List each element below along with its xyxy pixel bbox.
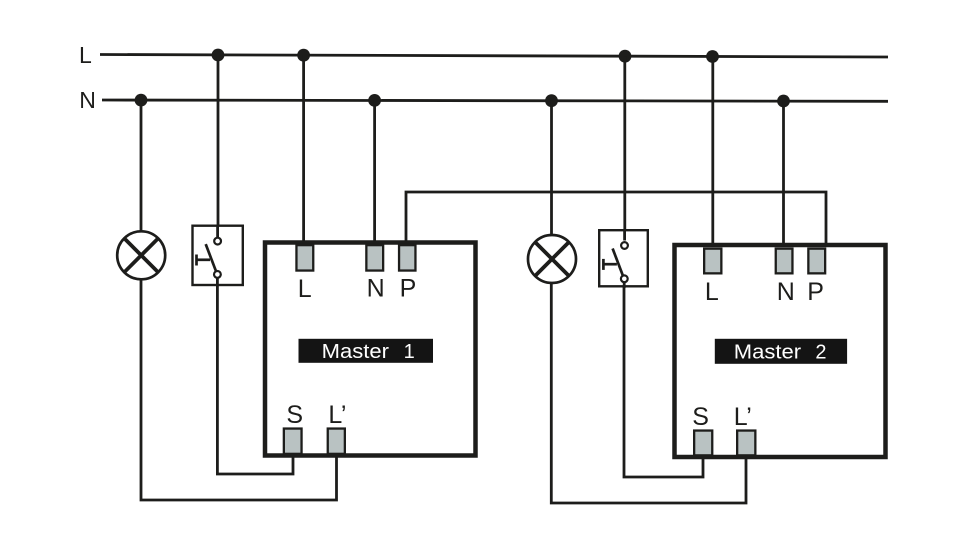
wire L bus — [100, 55, 888, 58]
junction on L bus at switch S1 feed — [212, 49, 225, 62]
junction on N bus at lamp E1 feed — [135, 94, 148, 107]
wire Master 2 L feed — [711, 57, 714, 250]
junction on L bus at switch S2 feed — [619, 50, 632, 63]
wire Master 1 N feed — [373, 100, 376, 246]
wire switch S1 feed from L — [217, 55, 220, 238]
wire lamp E2 to Master 2 L' — [551, 283, 746, 503]
wire Master 1 L feed — [302, 55, 305, 246]
terminal Master 2 L — [704, 249, 721, 274]
wire P interlink Master 1 P to Master 2 P — [406, 192, 826, 249]
module U1 Master 1 box — [265, 243, 476, 456]
wire N bus — [102, 100, 888, 101]
svg-text:S: S — [286, 401, 303, 429]
svg-text:N: N — [777, 278, 795, 306]
wire switch S2 to Master 2 S — [624, 281, 703, 477]
wire switch S2 feed from L — [623, 56, 626, 241]
lamp E1 — [117, 231, 165, 279]
junction on N bus at Master 2 N feed — [777, 95, 790, 108]
terminal Master 1 P — [399, 245, 415, 270]
svg-text:N: N — [367, 275, 385, 303]
label Master 1 — [299, 339, 434, 363]
svg-text:P: P — [807, 278, 824, 306]
svg-text:N: N — [79, 87, 96, 113]
terminal Master 1 N — [366, 245, 383, 270]
label Master 2 — [715, 339, 847, 364]
terminal Master 2 N — [776, 249, 793, 274]
wire switch S1 to Master 1 S — [217, 277, 293, 474]
wire Master 2 N feed — [782, 101, 785, 249]
svg-text:1: 1 — [404, 341, 415, 363]
wire lamp E1 feed from N — [140, 100, 143, 232]
terminal Master 1 S — [284, 429, 302, 454]
svg-text:L: L — [79, 42, 92, 68]
svg-text:L’: L’ — [328, 401, 346, 429]
terminal Master 2 S — [694, 431, 712, 456]
terminal Master 1 L — [296, 245, 313, 270]
lamp E2 — [528, 235, 576, 283]
terminal Master 2 P — [808, 249, 825, 274]
svg-text:L: L — [298, 275, 312, 303]
junction on N bus at Master 1 N feed — [368, 94, 381, 107]
svg-text:Master: Master — [734, 341, 802, 363]
svg-text:L’: L’ — [734, 403, 752, 431]
svg-text:P: P — [400, 275, 417, 303]
wire lamp E1 to Master 1 L' — [141, 279, 337, 500]
junction on N bus at lamp E2 feed — [545, 94, 558, 107]
push-button S1 — [193, 226, 243, 285]
svg-text:Master: Master — [322, 341, 390, 363]
wire lamp E2 feed from N — [550, 101, 553, 235]
terminal Master 2 L' — [737, 431, 755, 456]
svg-text:2: 2 — [815, 341, 826, 363]
svg-text:L: L — [705, 278, 719, 306]
svg-text:S: S — [692, 403, 709, 431]
junction on L bus at Master 1 L feed — [297, 49, 310, 62]
module U2 Master 2 box — [675, 245, 886, 457]
push-button S2 — [599, 230, 648, 288]
terminal Master 1 L' — [328, 429, 345, 454]
junction on L bus at Master 2 L feed — [706, 50, 719, 63]
